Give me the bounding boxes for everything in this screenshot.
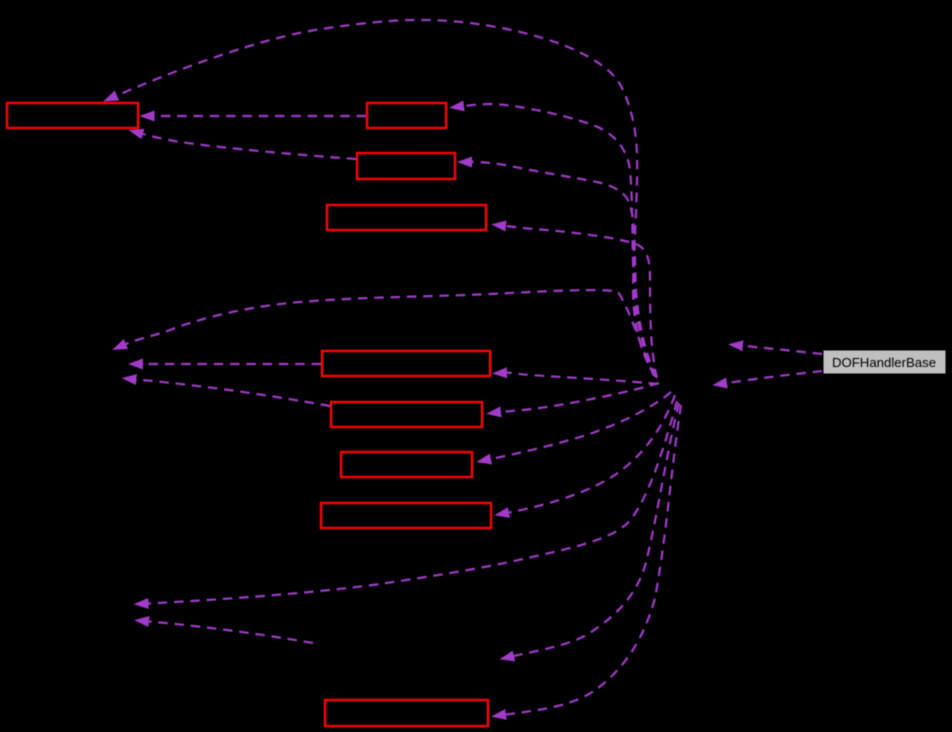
wire edge box5 to node IL1 [143, 363, 321, 365]
node box4 class [327, 205, 486, 230]
wire edge box3 to box1 [143, 134, 356, 159]
node box3 class [357, 153, 455, 179]
wire edge C to box1 top arc [117, 20, 656, 377]
wire edge C to box5 [507, 373, 658, 384]
wire edge C to box2 [464, 104, 656, 377]
wire edge C to box8 [509, 395, 675, 513]
wire edge DOFHandlerBase to C lower [727, 371, 822, 383]
node box2 class [367, 103, 446, 128]
wire edge C to node IC3 [514, 403, 679, 656]
wire edge C to node IL1 arc [126, 290, 654, 376]
node box8 class [321, 503, 491, 528]
wire edge C to node IL2 [149, 401, 678, 604]
wire edge C to box6 [501, 383, 659, 412]
wire edge box6 to node IL1 [137, 380, 331, 407]
wire edge node IC3 to node IL2 [149, 622, 313, 644]
node box6 class [331, 402, 482, 427]
node box9 bottom class [325, 700, 488, 726]
wire edge C to box4 [506, 226, 657, 378]
node box5 class [322, 351, 490, 376]
wire edge C to box3 [472, 162, 656, 377]
node DOFHandlerBase [823, 350, 946, 374]
wire edge DOFHandlerBase to C upper [743, 346, 822, 354]
node box1 top-left class [7, 103, 138, 128]
wire edge C to box9 [506, 405, 681, 715]
node box7 class [341, 452, 472, 477]
wire edge C to box7 [491, 392, 671, 459]
svg-text:DOFHandlerBase: DOFHandlerBase [832, 355, 936, 370]
wire edge box2 to box1 [155, 115, 367, 117]
